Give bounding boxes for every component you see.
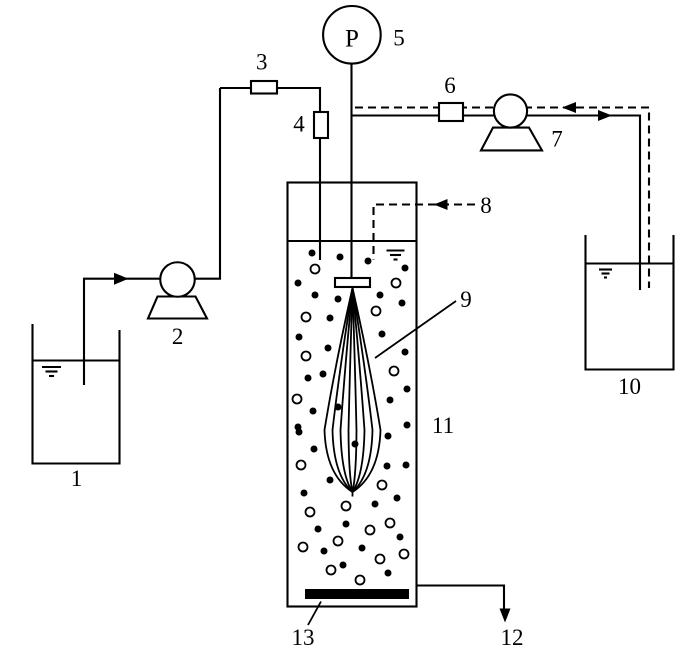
svg-text:3: 3 [256,50,268,75]
svg-text:8: 8 [480,193,492,218]
svg-text:7: 7 [551,127,563,152]
svg-text:13: 13 [292,625,315,647]
svg-text:P: P [345,26,359,53]
svg-text:12: 12 [501,625,524,647]
svg-text:9: 9 [460,287,472,312]
svg-text:6: 6 [444,73,456,98]
svg-text:1: 1 [71,466,83,491]
svg-text:4: 4 [293,112,305,137]
svg-text:11: 11 [432,413,454,438]
svg-text:5: 5 [393,26,405,51]
svg-text:2: 2 [172,324,184,349]
svg-text:10: 10 [618,374,641,399]
